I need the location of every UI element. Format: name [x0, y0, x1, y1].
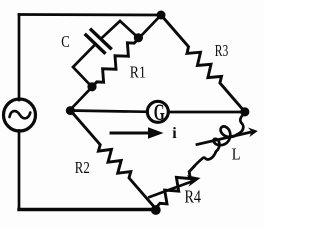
- resistor R1: [92, 38, 139, 87]
- node bottom: [151, 205, 161, 215]
- wire left upper: corner down to AC source: [18, 15, 21, 101]
- svg-text:R1: R1: [130, 63, 146, 82]
- capacitor C branch wire lower: J1 up-left to corner: [73, 46, 94, 87]
- AC source sine wave: [10, 111, 31, 118]
- wire top: top-left corner to top node: [19, 13, 161, 16]
- svg-text:R3: R3: [215, 41, 229, 60]
- svg-text:L: L: [232, 145, 241, 164]
- inductor L coil: [214, 126, 238, 151]
- node right: [240, 107, 249, 116]
- node top: [157, 11, 166, 20]
- resistor R4: [158, 167, 194, 206]
- svg-text:R4: R4: [185, 187, 202, 207]
- arrowhead L: [248, 128, 258, 138]
- arrowhead R4: [187, 175, 201, 187]
- capacitor C plate 1: [86, 35, 104, 53]
- wire L coil to right node hook: [237, 113, 245, 134]
- wire left lower: AC source to bottom corner: [18, 131, 21, 210]
- svg-text:R2: R2: [75, 158, 90, 177]
- junction J1: [87, 82, 96, 91]
- capacitor C plate 2: [91, 30, 110, 48]
- galvanometer G circle: [147, 101, 168, 122]
- resistor R3: [161, 15, 245, 112]
- capacitor C branch wire upper: plate to corner to J2: [102, 21, 139, 38]
- wire: left node to junction J1: [70, 87, 92, 110]
- resistor R2: [70, 110, 156, 209]
- wire: junction J2 to top node: [139, 15, 161, 38]
- AC source circle: [4, 99, 36, 131]
- wire galvanometer left: left node to G: [70, 111, 148, 112]
- svg-text:i: i: [172, 125, 177, 142]
- wire bottom: corner to bottom node: [19, 208, 156, 211]
- current arrow i line: [111, 132, 150, 135]
- node left: [66, 106, 75, 115]
- wire R4 to L with wiggle: [194, 152, 216, 167]
- variable arrow through R4 line: [150, 182, 192, 197]
- svg-text:G: G: [154, 100, 165, 125]
- wire galvanometer right: G to right node: [169, 111, 246, 114]
- current arrow i head: [148, 127, 164, 138]
- svg-text:C: C: [61, 32, 70, 51]
- variable arrow through L line: [197, 132, 250, 144]
- junction J2: [134, 33, 143, 42]
